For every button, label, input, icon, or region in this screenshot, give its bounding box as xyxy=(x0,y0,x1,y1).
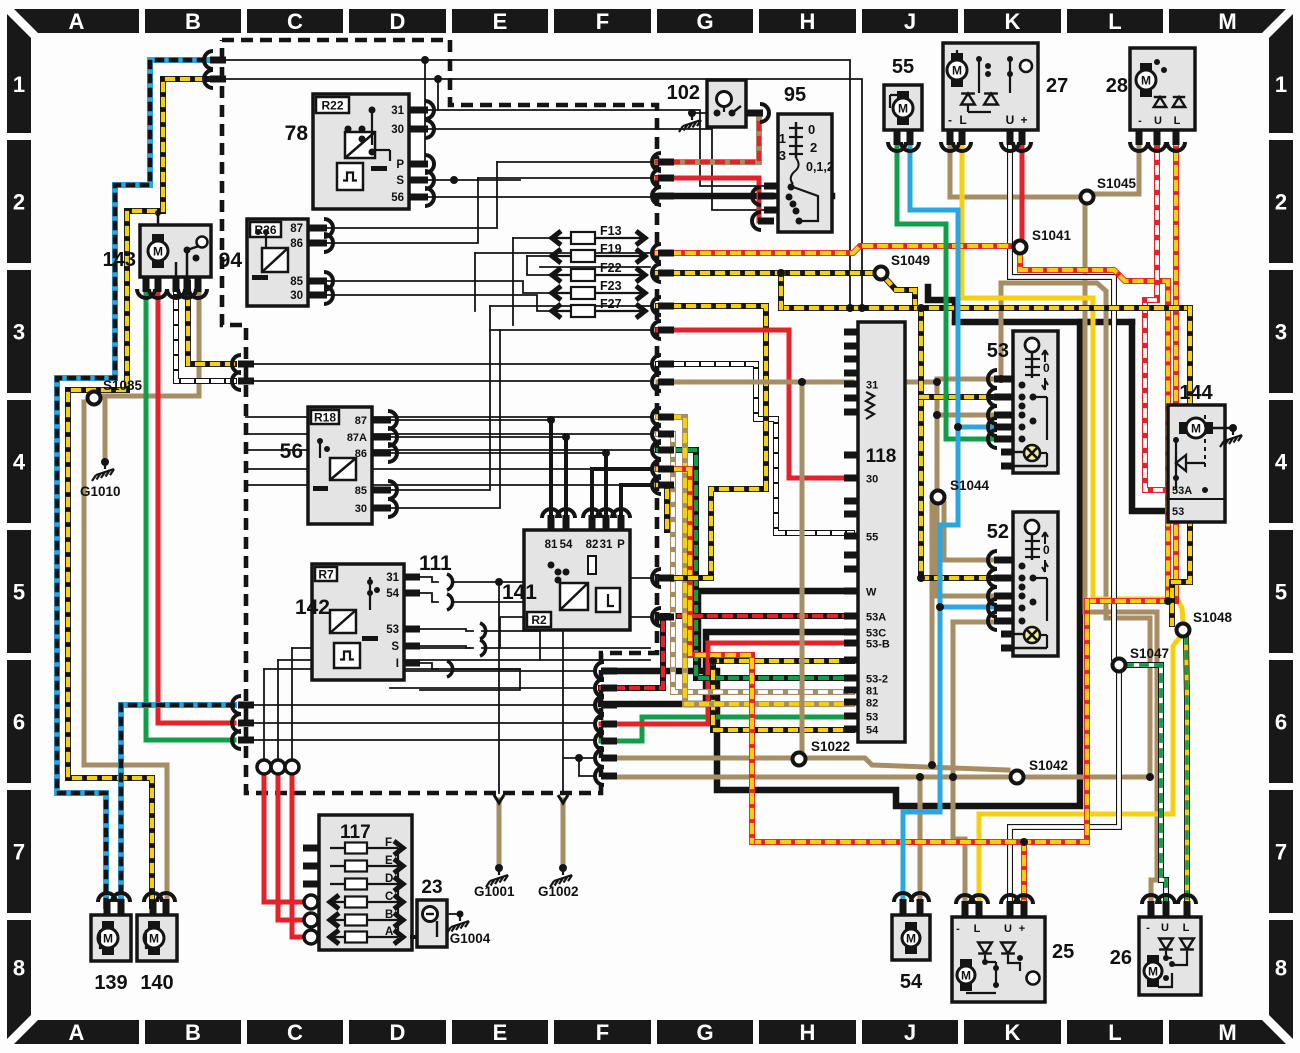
svg-text:H: H xyxy=(800,1020,816,1045)
svg-text:M: M xyxy=(906,932,916,946)
svg-text:31: 31 xyxy=(600,539,613,551)
svg-text:E: E xyxy=(493,1020,508,1045)
svg-text:M: M xyxy=(1148,965,1158,979)
svg-text:+: + xyxy=(1019,923,1025,935)
wire blue/black to 139 right xyxy=(121,705,234,906)
motor 55 xyxy=(884,85,922,130)
svg-text:31: 31 xyxy=(391,105,404,117)
wire black/yellow 82 xyxy=(658,485,667,530)
wire brown/red 102 xyxy=(657,113,759,162)
svg-text:L: L xyxy=(1174,115,1181,127)
fusebox 117 xyxy=(319,815,412,950)
svg-text:+: + xyxy=(1020,113,1027,127)
svg-text:B: B xyxy=(185,9,201,34)
svg-text:M: M xyxy=(153,245,163,259)
svg-text:23: 23 xyxy=(421,877,442,898)
svg-text:M: M xyxy=(149,932,159,946)
node S1022 xyxy=(793,753,806,766)
svg-text:E: E xyxy=(385,855,393,867)
svg-text:1: 1 xyxy=(779,131,786,146)
node S1085 xyxy=(88,392,101,405)
relay 78 R22 xyxy=(313,94,409,209)
svg-text:53: 53 xyxy=(386,624,399,636)
svg-text:S1045: S1045 xyxy=(1097,176,1137,191)
svg-text:87: 87 xyxy=(290,223,303,235)
node S1049 xyxy=(875,267,888,280)
svg-text:5: 5 xyxy=(1275,580,1287,605)
svg-text:56: 56 xyxy=(391,192,404,204)
svg-text:8: 8 xyxy=(1275,956,1287,981)
svg-text:W: W xyxy=(866,587,877,599)
motor 54 xyxy=(892,915,930,960)
svg-text:F: F xyxy=(596,1020,609,1045)
svg-text:85: 85 xyxy=(290,276,303,288)
svg-text:5: 5 xyxy=(13,580,25,605)
svg-text:1: 1 xyxy=(13,72,25,97)
svg-text:54: 54 xyxy=(900,971,923,993)
svg-text:K: K xyxy=(1005,1020,1021,1045)
wire black/yellow left xyxy=(68,79,218,906)
svg-text:31: 31 xyxy=(866,380,878,392)
svg-text:S: S xyxy=(396,175,404,187)
svg-text:S1022: S1022 xyxy=(811,739,850,754)
wire red/yellow feed S1041 xyxy=(657,246,1013,253)
node S1042 xyxy=(1011,771,1024,784)
svg-text:F27: F27 xyxy=(600,297,622,311)
wire brown grounds G1001/G1002 xyxy=(497,800,502,868)
svg-text:M: M xyxy=(1141,74,1151,88)
svg-text:A: A xyxy=(69,9,85,34)
svg-text:94: 94 xyxy=(219,249,243,272)
svg-text:-: - xyxy=(1146,922,1150,934)
svg-text:55: 55 xyxy=(866,532,878,544)
node S1047 xyxy=(1113,659,1126,672)
unit 26 xyxy=(1139,917,1201,995)
svg-text:86: 86 xyxy=(290,238,303,250)
svg-text:F23: F23 xyxy=(600,279,622,293)
wire white 27-U to S1047 xyxy=(1010,137,1114,658)
svg-text:S1044: S1044 xyxy=(950,478,990,493)
svg-text:0: 0 xyxy=(808,122,815,137)
ground G1010 xyxy=(92,465,114,481)
wire black/yellow S1049 net xyxy=(657,270,874,276)
svg-text:1: 1 xyxy=(1275,72,1287,97)
svg-text:S1048: S1048 xyxy=(1193,610,1233,625)
svg-text:6: 6 xyxy=(1275,710,1287,735)
svg-text:30: 30 xyxy=(290,290,303,302)
relay 94 R26 xyxy=(247,219,308,306)
wire black/yellow loop 54 pin xyxy=(713,661,852,730)
svg-text:-: - xyxy=(948,113,952,127)
unit 144 xyxy=(1168,405,1225,522)
svg-text:F19: F19 xyxy=(600,242,622,256)
svg-text:30: 30 xyxy=(391,124,404,136)
heavy black frame wire bottom xyxy=(609,322,1080,806)
svg-text:S1047: S1047 xyxy=(1130,646,1169,661)
svg-text:A: A xyxy=(69,1020,85,1045)
svg-text:B: B xyxy=(185,1020,201,1045)
switch 102 xyxy=(707,80,746,127)
svg-text:S1085: S1085 xyxy=(103,378,143,393)
svg-text:27: 27 xyxy=(1046,75,1068,97)
svg-text:G1004: G1004 xyxy=(450,931,491,946)
wire white/green S1047 to 26-U xyxy=(1126,665,1166,902)
svg-text:J: J xyxy=(904,1020,916,1045)
svg-text:D: D xyxy=(390,1020,406,1045)
svg-text:L: L xyxy=(974,923,981,935)
wire red 27-plus into S1041 xyxy=(1020,137,1025,240)
svg-text:R22: R22 xyxy=(321,99,343,113)
svg-text:E: E xyxy=(493,9,508,34)
node S1048 xyxy=(1177,624,1190,637)
svg-text:30: 30 xyxy=(866,474,878,486)
svg-text:142: 142 xyxy=(295,596,330,619)
svg-text:M: M xyxy=(1218,1020,1236,1045)
svg-text:139: 139 xyxy=(94,972,127,994)
svg-text:S: S xyxy=(391,641,399,653)
svg-text:6: 6 xyxy=(13,710,25,735)
wire red/yellow to 25-plus xyxy=(1087,598,1176,604)
svg-text:K: K xyxy=(1005,9,1021,34)
wire brown row777 into S1042 xyxy=(617,775,1010,780)
wire brown 27- to S1045 xyxy=(950,137,1080,197)
switch 52 xyxy=(1013,512,1058,656)
svg-text:53-2: 53-2 xyxy=(866,674,888,686)
wire black/yellow 143 pin4 xyxy=(188,283,234,364)
svg-text:95: 95 xyxy=(784,84,806,106)
svg-text:53: 53 xyxy=(1172,506,1184,518)
wire brown S1085/G1010 xyxy=(98,283,199,396)
wire red pin30 xyxy=(658,330,852,478)
component 143 xyxy=(140,225,211,277)
svg-text:87A: 87A xyxy=(347,432,367,444)
svg-text:G: G xyxy=(696,1020,713,1045)
wire red/black 53A xyxy=(601,616,852,688)
svg-text:D: D xyxy=(390,9,406,34)
svg-text:L: L xyxy=(959,113,966,127)
ground xyxy=(679,116,701,132)
thin interconnect wires xyxy=(226,60,850,308)
svg-text:7: 7 xyxy=(1275,840,1287,865)
svg-text:4: 4 xyxy=(13,450,26,475)
relay 56 R18 xyxy=(308,407,372,524)
wire 144-53 xyxy=(1132,322,1168,511)
svg-text:F: F xyxy=(385,837,392,849)
svg-text:54: 54 xyxy=(866,725,879,737)
wire red 143 down xyxy=(158,283,234,723)
svg-text:P: P xyxy=(617,539,625,551)
svg-text:54: 54 xyxy=(386,588,399,600)
svg-text:7: 7 xyxy=(13,840,25,865)
wire green/black into 118 53-2 xyxy=(658,450,852,678)
svg-text:141: 141 xyxy=(502,581,537,604)
svg-text:82: 82 xyxy=(866,698,878,710)
unit 28 xyxy=(1130,48,1195,130)
wire brown 118-31 to S1044 xyxy=(802,380,852,385)
wire red three to 117 xyxy=(264,774,307,902)
svg-text:26: 26 xyxy=(1110,947,1132,969)
svg-text:25: 25 xyxy=(1052,941,1074,963)
svg-text:87: 87 xyxy=(355,415,367,427)
ground xyxy=(447,917,469,933)
svg-text:M: M xyxy=(952,64,962,78)
wire white/black 143 pin3 xyxy=(176,283,234,381)
unit 25 xyxy=(952,917,1045,1002)
svg-text:54: 54 xyxy=(560,539,573,551)
svg-text:53: 53 xyxy=(987,340,1009,362)
svg-text:0,1,2: 0,1,2 xyxy=(806,160,834,174)
svg-text:28: 28 xyxy=(1106,75,1128,97)
svg-text:53-B: 53-B xyxy=(866,639,890,651)
svg-text:L: L xyxy=(1108,9,1121,34)
svg-text:A: A xyxy=(385,926,393,938)
svg-text:144: 144 xyxy=(1179,382,1213,404)
wire red/yellow S1041 out xyxy=(1020,254,1168,601)
svg-text:4: 4 xyxy=(1275,450,1288,475)
ground xyxy=(1220,431,1242,447)
ground G1002 xyxy=(550,871,572,887)
switch 53 xyxy=(1013,331,1058,473)
node S1041 xyxy=(1014,241,1027,254)
svg-text:102: 102 xyxy=(667,82,700,104)
svg-text:140: 140 xyxy=(140,972,173,994)
svg-text:52: 52 xyxy=(987,521,1009,543)
svg-text:U: U xyxy=(1154,115,1162,127)
svg-text:M: M xyxy=(1218,9,1236,34)
svg-text:2: 2 xyxy=(13,190,25,215)
wire yellow 27-L to S1048 to 25-L xyxy=(962,137,1183,622)
svg-text:R2: R2 xyxy=(531,613,547,627)
node S1044 xyxy=(932,491,945,504)
svg-text:D: D xyxy=(385,873,393,885)
svg-text:U: U xyxy=(1161,922,1169,934)
motor 140 xyxy=(137,915,177,961)
ground G1001 xyxy=(486,871,508,887)
svg-text:L: L xyxy=(1183,922,1190,934)
svg-text:82: 82 xyxy=(586,539,599,551)
svg-text:53A: 53A xyxy=(866,612,886,624)
frame border xyxy=(14,9,139,33)
harness dashed boundary xyxy=(222,40,657,793)
svg-text:G1001: G1001 xyxy=(474,884,515,899)
wire green 55 to 53 xyxy=(897,137,1004,439)
relay 141 R2 xyxy=(524,530,630,630)
svg-text:56: 56 xyxy=(280,440,303,463)
wire brown S1044 to 52 xyxy=(944,503,1004,560)
svg-text:G1010: G1010 xyxy=(80,484,121,499)
svg-text:M: M xyxy=(1191,422,1201,436)
svg-text:81: 81 xyxy=(866,686,878,698)
svg-text:S1049: S1049 xyxy=(891,253,930,268)
svg-text:111: 111 xyxy=(419,552,452,575)
svg-text:2: 2 xyxy=(1275,190,1287,215)
wire brown 53 pin 379 xyxy=(937,377,1004,382)
wire black/yellow via 307 to 118 xyxy=(658,306,766,578)
wire blue 55 to 53/52 xyxy=(910,137,1004,427)
svg-text:M: M xyxy=(961,969,971,983)
svg-text:G1002: G1002 xyxy=(538,884,579,899)
svg-text:R7: R7 xyxy=(318,568,334,582)
svg-text:143: 143 xyxy=(103,249,136,271)
wire brown 54 motor xyxy=(918,777,923,905)
wire black/yellow 142-31 long row xyxy=(658,575,711,581)
unit 27 xyxy=(943,43,1038,130)
wire red/yellow 28-L down xyxy=(1173,137,1179,601)
wire red/yellow from 141-82 xyxy=(658,469,752,842)
svg-text:-: - xyxy=(1138,115,1142,127)
svg-text:C: C xyxy=(385,891,393,903)
svg-text:8: 8 xyxy=(13,956,25,981)
svg-text:78: 78 xyxy=(285,122,309,145)
wire green into 118-53 xyxy=(601,717,852,741)
svg-text:M: M xyxy=(103,932,113,946)
motor 139 xyxy=(91,915,131,961)
svg-text:55: 55 xyxy=(892,56,914,78)
svg-text:C: C xyxy=(287,9,303,34)
svg-text:S1041: S1041 xyxy=(1032,228,1072,243)
118 53C / W wires xyxy=(601,632,852,704)
svg-text:117: 117 xyxy=(340,822,371,843)
wire red into 118 53-B xyxy=(601,643,852,724)
svg-text:P: P xyxy=(396,159,404,171)
svg-text:0: 0 xyxy=(1043,361,1050,375)
relay 142 R7 xyxy=(312,564,404,680)
95 black pin wire xyxy=(770,193,832,200)
svg-text:30: 30 xyxy=(355,503,367,515)
svg-text:118: 118 xyxy=(866,446,897,467)
fuses F13..F27 xyxy=(549,237,648,239)
svg-text:F13: F13 xyxy=(600,224,622,238)
wire green 143 down xyxy=(146,283,234,740)
svg-text:U: U xyxy=(1006,113,1015,127)
svg-text:3: 3 xyxy=(779,148,786,163)
wire blue/black left outer xyxy=(57,60,218,906)
svg-text:2: 2 xyxy=(810,140,817,155)
svg-text:B: B xyxy=(385,909,393,921)
svg-text:3: 3 xyxy=(13,320,25,345)
svg-text:R18: R18 xyxy=(314,411,336,425)
unit 23 xyxy=(417,900,447,947)
wire red/white 28-U to 144 53A xyxy=(1145,137,1168,490)
svg-text:0: 0 xyxy=(1043,543,1050,557)
svg-text:U: U xyxy=(1004,923,1012,935)
svg-text:85: 85 xyxy=(355,485,367,497)
svg-text:F22: F22 xyxy=(600,261,622,275)
switch 95 xyxy=(778,114,832,232)
wire brown 52-621 down to 25 xyxy=(953,620,1004,625)
svg-text:81: 81 xyxy=(545,539,558,551)
svg-text:31: 31 xyxy=(386,572,399,584)
wire brown S1022 xyxy=(617,756,792,761)
node S1045 xyxy=(1081,191,1094,204)
connector 118 xyxy=(858,322,905,742)
svg-text:I: I xyxy=(396,658,399,670)
wire red to 95 xyxy=(657,178,770,221)
svg-text:M: M xyxy=(898,102,908,116)
wire yellow/green S1048 to 26-L xyxy=(1186,637,1187,902)
svg-text:C: C xyxy=(287,1020,303,1045)
svg-text:53: 53 xyxy=(866,712,878,724)
svg-text:53A: 53A xyxy=(1172,485,1192,497)
svg-text:F: F xyxy=(596,9,609,34)
boundary crossing connectors xyxy=(204,51,213,69)
svg-text:H: H xyxy=(800,9,816,34)
svg-text:S1042: S1042 xyxy=(1029,758,1068,773)
svg-text:L: L xyxy=(1108,1020,1121,1045)
svg-text:G: G xyxy=(696,9,713,34)
wire brown S1042 east to 26 xyxy=(1024,775,1150,780)
svg-text:J: J xyxy=(904,9,916,34)
svg-text:-: - xyxy=(956,923,960,935)
svg-text:3: 3 xyxy=(1275,320,1287,345)
wire brown/white 81 xyxy=(658,434,852,692)
